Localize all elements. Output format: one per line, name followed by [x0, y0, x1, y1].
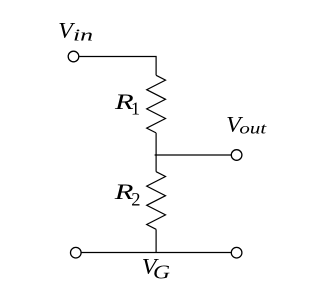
svg-text:2: 2 [131, 191, 140, 211]
terminal Vin [68, 51, 79, 62]
terminal ground left [71, 247, 82, 258]
svg-text:1: 1 [131, 99, 140, 119]
resistor R2 [147, 172, 166, 230]
terminal ground right [231, 247, 242, 258]
svg-text:G: G [153, 260, 170, 283]
label Vout [226, 112, 267, 138]
label VG [142, 254, 170, 283]
label Vin [58, 18, 93, 44]
resistor R1 [147, 75, 166, 133]
wire [155, 229, 157, 252]
wire [155, 133, 157, 172]
label R1 [114, 89, 140, 119]
wire [81, 252, 231, 254]
wire [155, 154, 232, 156]
wire [79, 57, 156, 76]
label R2 [114, 179, 141, 211]
terminal Vout [231, 150, 242, 161]
svg-text:in: in [73, 26, 93, 45]
svg-text:out: out [239, 120, 267, 138]
